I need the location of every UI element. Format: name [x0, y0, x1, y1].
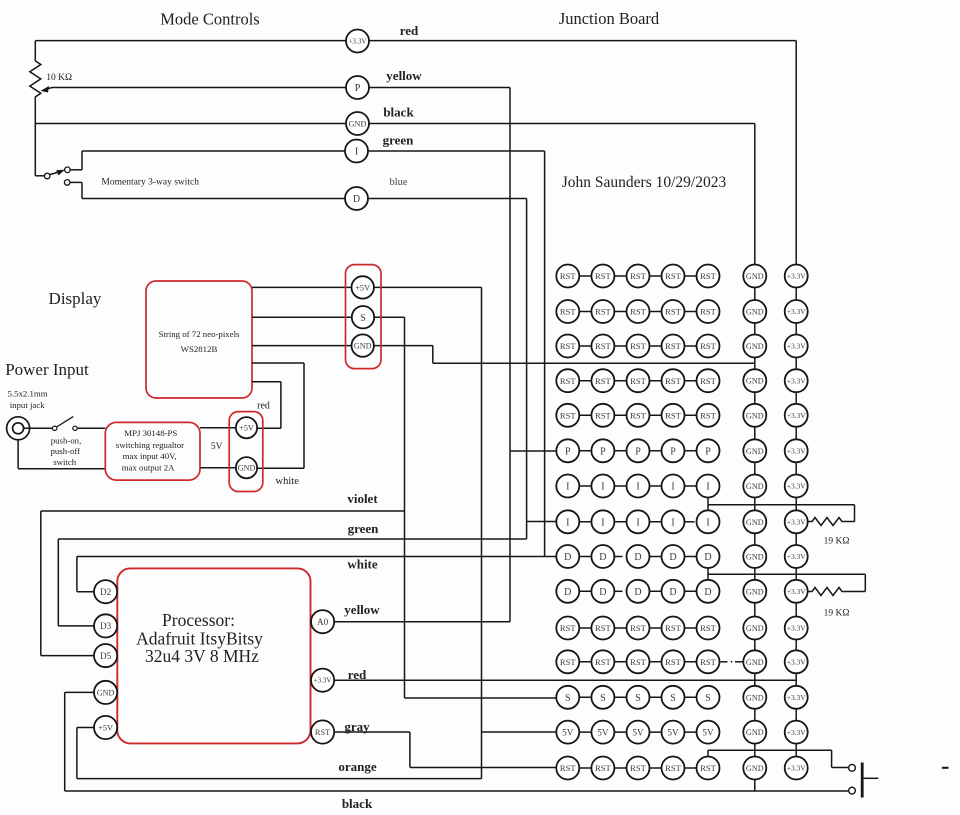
- junction board row RST y346: [556, 335, 807, 358]
- svg-text:I: I: [355, 147, 358, 158]
- svg-text:19 KΩ: 19 KΩ: [824, 609, 850, 619]
- svg-text:+3.3V: +3.3V: [787, 624, 806, 633]
- wire processor GND black: [65, 691, 94, 693]
- node processor pin A0: [311, 610, 334, 633]
- svg-text:green: green: [348, 521, 380, 536]
- node display pin S: [352, 306, 374, 328]
- svg-text:D: D: [564, 587, 571, 598]
- switch SW1 momentary 3-way: [35, 175, 44, 177]
- svg-text:5V: 5V: [597, 727, 609, 737]
- svg-text:+3.3V: +3.3V: [787, 272, 806, 281]
- svg-text:RST: RST: [665, 410, 682, 420]
- svg-text:+3.3V: +3.3V: [787, 728, 806, 737]
- svg-text:white: white: [276, 476, 300, 487]
- svg-text:blue: blue: [389, 177, 407, 188]
- junction board row 5V y732: [556, 721, 807, 744]
- svg-text:RST: RST: [595, 763, 612, 773]
- resistor potentiometer 10 KOhm: [34, 41, 36, 61]
- svg-text:I: I: [601, 517, 604, 528]
- svg-text:D: D: [353, 194, 360, 205]
- wire black GND net: [35, 123, 755, 125]
- svg-text:RST: RST: [700, 657, 717, 667]
- svg-text:red: red: [257, 401, 270, 412]
- svg-text:D: D: [669, 552, 676, 563]
- junction board row S y697: [556, 686, 807, 709]
- svg-text:GND: GND: [746, 658, 764, 667]
- connector regulator output header: [229, 412, 263, 492]
- wire processor 3.3V red: [334, 679, 796, 681]
- svg-text:GND: GND: [746, 272, 764, 281]
- svg-text:Momentary 3-way switch: Momentary 3-way switch: [101, 178, 199, 188]
- wire D rows tie: [707, 557, 709, 592]
- svg-text:D5: D5: [100, 651, 112, 661]
- node regulator pin GND: [236, 457, 257, 478]
- junction board row RST y628: [556, 617, 807, 640]
- node processor pin GND: [94, 681, 117, 704]
- svg-text:RST: RST: [560, 271, 577, 281]
- svg-text:RST: RST: [560, 376, 577, 386]
- svg-text:input jack: input jack: [10, 400, 46, 410]
- svg-text:D: D: [634, 552, 641, 563]
- svg-text:RST: RST: [665, 657, 682, 667]
- svg-text:S: S: [705, 693, 711, 704]
- svg-text:D2: D2: [100, 587, 112, 597]
- node mode connector I: [345, 140, 368, 163]
- svg-text:RST: RST: [595, 623, 612, 633]
- svg-text:GND: GND: [746, 624, 764, 633]
- svg-text:yellow: yellow: [386, 68, 422, 83]
- svg-text:D: D: [634, 587, 641, 598]
- svg-text:Junction Board: Junction Board: [559, 9, 660, 28]
- svg-text:Display: Display: [49, 289, 102, 308]
- wire display GND: [252, 345, 433, 347]
- svg-text:GND: GND: [349, 119, 367, 128]
- svg-text:GND: GND: [97, 688, 115, 697]
- svg-text:black: black: [383, 105, 414, 120]
- svg-text:Mode Controls: Mode Controls: [160, 10, 259, 29]
- svg-text:S: S: [600, 693, 606, 704]
- svg-text:RST: RST: [665, 307, 682, 317]
- wire blue D net: [82, 198, 527, 200]
- svg-text:GND: GND: [746, 552, 764, 561]
- svg-text:GND: GND: [746, 342, 764, 351]
- svg-text:white: white: [347, 557, 378, 572]
- junction board row RST y415: [556, 404, 807, 427]
- svg-text:max input 40V,: max input 40V,: [123, 451, 177, 461]
- wire red 3.3V net: [35, 40, 796, 42]
- svg-text:WS2812B: WS2812B: [181, 344, 218, 354]
- wire RST row to button: [707, 750, 709, 757]
- svg-text:D: D: [669, 587, 676, 598]
- junction board row RST y380: [556, 369, 807, 392]
- junction board row D y591: [556, 580, 807, 603]
- svg-text:+3.3V: +3.3V: [787, 587, 806, 596]
- svg-text:violet: violet: [347, 491, 378, 506]
- svg-text:P: P: [600, 446, 606, 457]
- svg-text:GND: GND: [746, 411, 764, 420]
- junction board row RST y276: [556, 265, 807, 288]
- svg-text:5V: 5V: [562, 727, 574, 737]
- svg-text:GND: GND: [746, 377, 764, 386]
- svg-text:S: S: [635, 693, 641, 704]
- svg-text:+3.3V: +3.3V: [787, 446, 806, 455]
- node regulator pin +5V: [236, 417, 257, 438]
- svg-text:RST: RST: [630, 341, 647, 351]
- svg-text:RST: RST: [560, 657, 577, 667]
- svg-text:John Saunders 10/29/2023: John Saunders 10/29/2023: [562, 174, 727, 191]
- svg-text:+3.3V: +3.3V: [787, 517, 806, 526]
- svg-text:switching regualtor: switching regualtor: [116, 440, 184, 450]
- svg-text:+5V: +5V: [98, 724, 113, 733]
- wire 5V row stub: [482, 731, 557, 733]
- svg-text:RST: RST: [595, 657, 612, 667]
- junction board row D y556: [556, 545, 807, 568]
- svg-text:+3.3V: +3.3V: [787, 657, 806, 666]
- svg-text:RST: RST: [630, 271, 647, 281]
- svg-text:RST: RST: [595, 307, 612, 317]
- svg-text:P: P: [705, 446, 711, 457]
- svg-text:GND: GND: [354, 342, 372, 351]
- svg-text:RST: RST: [665, 376, 682, 386]
- wire D5 violet: [41, 655, 94, 657]
- node processor pin +5V: [94, 716, 117, 739]
- processor U1 Adafruit ItsyBitsy box: [117, 568, 310, 743]
- node mode connector P: [346, 76, 369, 99]
- resistor 19 KOhm (I): [808, 518, 844, 526]
- svg-text:5V: 5V: [632, 727, 644, 737]
- svg-text:String of 72 neo-pixels: String of 72 neo-pixels: [159, 329, 240, 339]
- svg-text:GND: GND: [746, 307, 764, 316]
- node processor pin +3.3V: [311, 669, 334, 692]
- display neopixel string box: [146, 281, 252, 398]
- svg-text:GND: GND: [746, 764, 764, 773]
- svg-text:RST: RST: [665, 623, 682, 633]
- svg-text:Processor:: Processor:: [162, 610, 235, 630]
- svg-text:I: I: [566, 517, 569, 528]
- svg-text:RST: RST: [700, 341, 717, 351]
- svg-text:I: I: [601, 482, 604, 493]
- svg-text:RST: RST: [595, 341, 612, 351]
- svg-text:RST: RST: [315, 728, 330, 737]
- junction board row RST y311: [556, 300, 807, 323]
- wire D2 white: [77, 591, 94, 593]
- wire display S: [252, 316, 405, 318]
- svg-text:+3.3V: +3.3V: [787, 376, 806, 385]
- svg-text:32u4 3V 8 MHz: 32u4 3V 8 MHz: [145, 646, 259, 666]
- svg-text:GND: GND: [746, 587, 764, 596]
- svg-text:RST: RST: [630, 623, 647, 633]
- svg-text:+3.3V: +3.3V: [314, 677, 332, 685]
- wire regulator GND out: [200, 467, 236, 469]
- svg-text:black: black: [342, 796, 373, 811]
- svg-text:RST: RST: [630, 657, 647, 667]
- svg-text:RST: RST: [700, 410, 717, 420]
- wire GND column: [754, 263, 756, 791]
- svg-text:I: I: [671, 517, 674, 528]
- svg-text:RST: RST: [630, 410, 647, 420]
- wire display +5V: [252, 286, 482, 288]
- svg-text:RST: RST: [595, 410, 612, 420]
- svg-text:RST: RST: [560, 410, 577, 420]
- svg-text:A0: A0: [317, 617, 329, 627]
- svg-text:RST: RST: [665, 271, 682, 281]
- svg-text:+3.3V: +3.3V: [348, 38, 367, 46]
- svg-text:RST: RST: [630, 376, 647, 386]
- svg-text:+5V: +5V: [355, 283, 370, 292]
- wire jack to switch: [24, 427, 53, 429]
- svg-text:GND: GND: [746, 693, 764, 702]
- svg-text:GND: GND: [746, 728, 764, 737]
- svg-text:D: D: [564, 552, 571, 563]
- wire jack ground: [17, 440, 19, 469]
- wire I rows tie: [707, 486, 709, 522]
- svg-text:RST: RST: [665, 763, 682, 773]
- svg-text:I: I: [566, 482, 569, 493]
- svg-text:19 KΩ: 19 KΩ: [824, 537, 850, 547]
- svg-text:D: D: [704, 587, 711, 598]
- svg-text:RST: RST: [700, 623, 717, 633]
- node processor pin D5: [94, 644, 117, 667]
- svg-text:D3: D3: [100, 621, 112, 631]
- svg-text:RST: RST: [560, 623, 577, 633]
- svg-text:GND: GND: [746, 518, 764, 527]
- svg-text:yellow: yellow: [344, 602, 380, 617]
- svg-text:D: D: [704, 552, 711, 563]
- svg-text:I: I: [706, 517, 709, 528]
- svg-text:RST: RST: [595, 376, 612, 386]
- wire regulator +5V out: [200, 427, 236, 429]
- svg-text:I: I: [706, 482, 709, 493]
- regulator U2 MPJ 30148-PS box: [105, 422, 200, 480]
- wire 3.3V column: [795, 263, 797, 768]
- junction board row I y521: [556, 510, 807, 533]
- svg-text:P: P: [355, 83, 361, 94]
- svg-text:I: I: [636, 517, 639, 528]
- node processor pin D3: [94, 614, 117, 637]
- wire P row stub: [510, 450, 556, 452]
- svg-text:RST: RST: [700, 376, 717, 386]
- node mode connector D: [345, 187, 368, 210]
- node display pin +5V: [352, 276, 374, 298]
- wire A0 yellow: [334, 621, 510, 623]
- svg-text:RST: RST: [630, 763, 647, 773]
- svg-text:+3.3V: +3.3V: [787, 552, 806, 561]
- svg-text:10 KΩ: 10 KΩ: [46, 73, 72, 83]
- junction board row RST y768: [556, 757, 807, 780]
- svg-text:RST: RST: [560, 763, 577, 773]
- node display pin GND: [352, 334, 374, 356]
- svg-text:red: red: [348, 667, 367, 682]
- svg-text:S: S: [670, 693, 676, 704]
- resistor 19 KOhm (D): [808, 588, 844, 596]
- svg-text:RST: RST: [665, 341, 682, 351]
- svg-text:P: P: [635, 446, 641, 457]
- svg-text:Power Input: Power Input: [5, 360, 89, 379]
- svg-text:RST: RST: [700, 763, 717, 773]
- svg-text:5V: 5V: [211, 442, 223, 452]
- svg-text:+3.3V: +3.3V: [787, 307, 806, 316]
- svg-text:P: P: [670, 446, 676, 457]
- wire neopixel power white: [252, 362, 304, 364]
- svg-text:push-off: push-off: [50, 446, 80, 456]
- svg-text:5V: 5V: [702, 727, 714, 737]
- svg-text:red: red: [400, 23, 419, 38]
- svg-text:D: D: [599, 552, 606, 563]
- svg-text:GND: GND: [238, 464, 256, 473]
- wire neopixel power red: [252, 381, 281, 383]
- svg-text:switch: switch: [53, 457, 77, 467]
- svg-text:gray: gray: [344, 719, 370, 734]
- svg-text:+3.3V: +3.3V: [787, 411, 806, 420]
- svg-text:RST: RST: [700, 307, 717, 317]
- connector display header: [346, 265, 382, 369]
- wire I row 2 stub: [527, 521, 557, 523]
- svg-text:push-on,: push-on,: [51, 436, 82, 446]
- svg-text:5V: 5V: [667, 727, 679, 737]
- wire D3 green: [58, 625, 94, 627]
- junction board row P y450: [556, 439, 807, 462]
- connector J1 input jack: [7, 417, 30, 440]
- wire processor +5V orange: [77, 727, 94, 729]
- svg-text:I: I: [636, 482, 639, 493]
- svg-text:+5V: +5V: [239, 424, 254, 433]
- svg-text:S: S: [565, 693, 571, 704]
- stray dash mark: [942, 767, 949, 769]
- potentiometer wiper arrow: [46, 88, 52, 90]
- wire S row stub: [405, 697, 557, 699]
- svg-text:5.5x2.1mm: 5.5x2.1mm: [8, 389, 48, 399]
- svg-text:orange: orange: [338, 759, 377, 774]
- svg-text:I: I: [671, 482, 674, 493]
- svg-text:S: S: [360, 313, 366, 324]
- junction board row I y486: [556, 475, 807, 498]
- svg-text:RST: RST: [630, 307, 647, 317]
- node processor pin RST: [311, 720, 334, 743]
- svg-text:RST: RST: [595, 271, 612, 281]
- svg-text:P: P: [565, 446, 571, 457]
- switch SW2 push-on push-off: [52, 426, 56, 430]
- wire RST gray: [334, 731, 410, 733]
- svg-text:RST: RST: [560, 341, 577, 351]
- node mode connector GND: [346, 112, 369, 135]
- wire green I net: [82, 150, 545, 152]
- wire yellow P net: [52, 87, 510, 89]
- svg-text:+3.3V: +3.3V: [787, 764, 806, 773]
- svg-text:+3.3V: +3.3V: [787, 482, 806, 491]
- switch reset button: [849, 764, 856, 771]
- node processor pin D2: [94, 580, 117, 603]
- svg-text:+3.3V: +3.3V: [787, 342, 806, 351]
- junction board row RST y661: [556, 650, 807, 673]
- svg-text:RST: RST: [560, 307, 577, 317]
- svg-text:GND: GND: [746, 482, 764, 491]
- svg-text:MPJ 30148-PS: MPJ 30148-PS: [124, 428, 177, 438]
- svg-text:RST: RST: [700, 271, 717, 281]
- svg-text:D: D: [599, 587, 606, 598]
- svg-text:max output 2A: max output 2A: [122, 463, 175, 473]
- svg-text:green: green: [383, 133, 415, 148]
- svg-text:+3.3V: +3.3V: [787, 693, 806, 702]
- node mode connector +3.3V: [346, 30, 369, 53]
- svg-text:GND: GND: [746, 447, 764, 456]
